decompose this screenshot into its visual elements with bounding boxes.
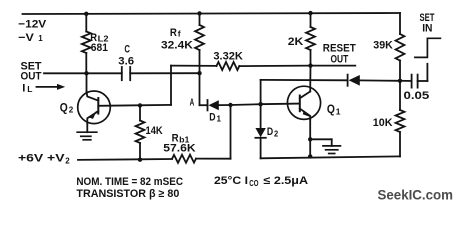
svg-text:0.05: 0.05 <box>404 90 430 102</box>
arrow IL current direction <box>37 84 66 90</box>
svg-text:Q: Q <box>327 104 335 116</box>
svg-text:10K: 10K <box>373 117 393 129</box>
wire top -12V supply rail <box>23 13 401 14</box>
note Ico <box>214 175 308 188</box>
transistor Q2 circle <box>78 91 111 124</box>
wire 3.32K to Q1 collector node <box>239 65 310 68</box>
wire trigger riser <box>260 80 262 104</box>
svg-text:32.4K: 32.4K <box>161 39 193 51</box>
svg-text:OUT: OUT <box>21 70 42 82</box>
label 32.4K <box>161 39 193 51</box>
label 2K <box>288 36 304 48</box>
node Q2 base / 14K <box>138 103 142 107</box>
wire coupling to 3.32K <box>171 65 217 67</box>
wire RL2 top lead <box>85 14 87 32</box>
label RESET <box>323 42 356 54</box>
wire 14K bottom lead <box>139 143 141 160</box>
diode D1 <box>208 100 231 110</box>
set-in step waveform <box>415 38 441 57</box>
node 14K / +6V rail <box>138 158 142 162</box>
transistor Q1 collector inner <box>300 92 310 99</box>
wire node A down to diode line <box>199 73 201 105</box>
label node A <box>190 98 195 109</box>
wire 0.05 right plate to riser <box>418 64 428 81</box>
note transistor beta <box>76 188 179 200</box>
svg-text:SeekIC.com: SeekIC.com <box>378 187 454 202</box>
svg-text:2: 2 <box>274 129 279 138</box>
svg-text:1: 1 <box>38 34 43 43</box>
wire RL2 bottom lead <box>85 53 87 73</box>
label Rf <box>170 27 181 39</box>
svg-text:−V: −V <box>18 32 34 44</box>
label OUT (out) <box>21 70 42 82</box>
svg-text:57.6K: 57.6K <box>163 143 195 155</box>
svg-text:I: I <box>22 83 25 95</box>
svg-text:39K: 39K <box>373 39 393 51</box>
resistor 3.32K <box>217 62 240 70</box>
node Q1 collector / 2K / 3.32K / reset-out <box>308 63 312 67</box>
wire 14K top lead <box>139 105 141 120</box>
label D1 <box>209 111 221 123</box>
transistor Q1 emitter with NPN arrow <box>300 109 312 120</box>
label C <box>124 44 130 56</box>
label Q2 <box>60 102 74 114</box>
node Q1 emitter / ground rail <box>308 154 312 158</box>
wire Q1 collector <box>309 66 311 92</box>
label 57.6K <box>163 143 195 155</box>
svg-text:1: 1 <box>217 114 222 123</box>
ground at Q1 emitter <box>310 139 340 153</box>
ground below Q2 <box>77 124 97 140</box>
resistor Rf 32.4K <box>195 25 204 50</box>
svg-text:A: A <box>190 98 195 109</box>
wire reset-out terminal <box>311 65 356 67</box>
wire coupling riser x=171 <box>170 66 172 105</box>
label +6V +V2 <box>18 153 70 166</box>
transistor Q1 circle <box>287 86 320 119</box>
wire 39K bottom lead <box>399 61 401 81</box>
wire set-out terminal <box>44 72 87 74</box>
wire Rf bottom lead <box>199 50 201 73</box>
wire base line into Q1 <box>261 103 300 106</box>
svg-text:681: 681 <box>91 42 108 54</box>
label SET (in) <box>420 12 435 24</box>
label RL2 <box>90 32 108 44</box>
label IN <box>422 23 432 35</box>
wire node A to D1 cathode <box>200 104 208 106</box>
svg-text:OUT: OUT <box>331 53 349 65</box>
resistor 2K <box>306 27 315 50</box>
node Q1 emitter / ground stub <box>308 137 312 141</box>
resistor 39K <box>396 34 405 61</box>
wire to 0.05 left plate <box>400 80 412 82</box>
svg-text:1: 1 <box>336 106 341 116</box>
label SET (out) <box>21 61 42 73</box>
wire Rf top lead <box>199 13 201 25</box>
label 681 <box>91 42 108 54</box>
wire ground rail right <box>261 156 400 158</box>
label 14K <box>146 125 163 137</box>
note nominal time <box>76 176 183 188</box>
svg-text:R: R <box>170 27 177 39</box>
node A junction Rf/C <box>197 71 201 75</box>
wire trigger line to right <box>261 79 348 81</box>
label D2 <box>267 126 279 139</box>
diode D2 <box>255 104 265 158</box>
wire Rb1 riser <box>230 105 232 159</box>
label 3.6 <box>118 55 134 67</box>
transistor Q2 collector wire <box>87 73 99 100</box>
transistor Q1 base bar <box>299 96 301 112</box>
resistor 10K <box>396 110 405 132</box>
svg-text:−12V: −12V <box>18 19 47 31</box>
wire 10K bottom lead <box>399 132 401 156</box>
svg-text:IN: IN <box>422 23 432 35</box>
svg-text:+6V +V: +6V +V <box>18 153 65 165</box>
svg-text:2K: 2K <box>288 36 304 48</box>
svg-text:L: L <box>27 84 32 94</box>
svg-text:f: f <box>178 28 181 38</box>
wire Q2 base line <box>98 104 171 107</box>
wire C right plate to Rf bottom node <box>130 72 199 74</box>
wire 2K bottom lead <box>310 50 312 66</box>
svg-text:25°C I: 25°C I <box>214 175 248 187</box>
wire +6V rail left <box>78 158 172 161</box>
transistor Q2 base bar <box>97 98 99 114</box>
node D1 line / Rb1 riser <box>228 103 232 107</box>
svg-text:14K: 14K <box>146 125 163 137</box>
svg-text:3.32K: 3.32K <box>213 50 243 62</box>
label OUT (reset) <box>331 53 349 65</box>
resistor RL2 681 <box>82 32 91 54</box>
wire Q1 emitter down <box>309 119 311 156</box>
diode trigger (unlabeled) <box>348 75 400 86</box>
wire D1 line to D2 node <box>231 103 261 106</box>
svg-text:2: 2 <box>69 105 74 115</box>
capacitor 0.05 plates <box>412 75 418 88</box>
label Rb1 <box>172 132 190 144</box>
svg-text:Q: Q <box>60 102 68 114</box>
wire 2K top lead <box>310 13 312 27</box>
node 39K / 0.05 / 10K <box>398 79 402 83</box>
node top rail / Rf <box>197 11 201 15</box>
label 3.32K <box>213 50 243 62</box>
watermark SeekIC.com <box>378 187 454 202</box>
label -V1 <box>18 32 43 44</box>
svg-text:D: D <box>209 111 215 123</box>
label 0.05 <box>404 90 430 102</box>
wire 39K top lead <box>399 13 401 34</box>
node RL2 / C / set-out / Q2 collector <box>84 71 88 75</box>
label 39K <box>373 39 393 51</box>
svg-text:NOM. TIME = 82 mSEC: NOM. TIME = 82 mSEC <box>76 176 183 188</box>
resistor Rb1 57.6K <box>172 155 196 163</box>
capacitor C 3.6 plates <box>122 67 130 80</box>
transistor Q2 emitter with PNP arrow <box>87 110 98 123</box>
svg-text:TRANSISTOR β ≥ 80: TRANSISTOR β ≥ 80 <box>76 188 179 200</box>
svg-text:3.6: 3.6 <box>118 55 134 67</box>
wire 10K top lead <box>399 81 401 110</box>
label IL <box>22 83 32 95</box>
resistor 14K <box>136 121 145 144</box>
svg-text:D: D <box>267 126 273 138</box>
svg-text:≤ 2.5μA: ≤ 2.5μA <box>264 175 309 187</box>
label Q1 <box>327 104 341 117</box>
svg-text:C: C <box>124 44 130 56</box>
svg-text:2: 2 <box>65 157 70 166</box>
node Q1 base / D2 / trigger <box>258 102 262 106</box>
svg-text:CO: CO <box>249 179 258 188</box>
label -12V supply <box>18 19 47 31</box>
wire node to C left plate <box>87 72 122 74</box>
node top rail / 2K <box>308 11 312 15</box>
label 10K <box>373 117 393 129</box>
node top rail / RL2 <box>84 12 88 16</box>
wire +6V rail to riser corner <box>196 158 231 160</box>
